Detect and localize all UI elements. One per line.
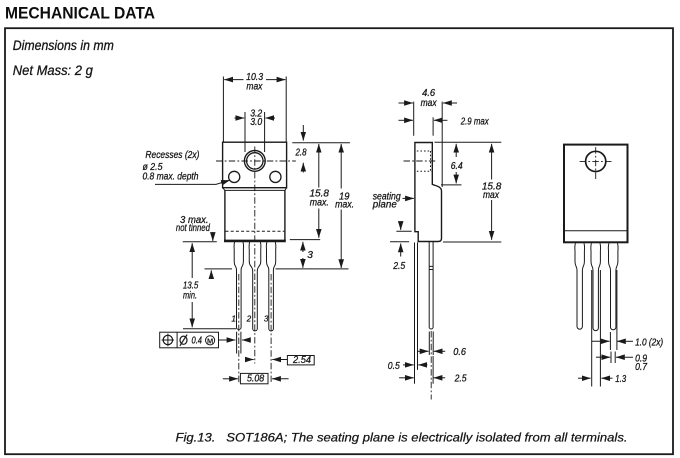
dim 3.2/3.0 extension lines [245,112,265,152]
side lead [429,242,433,329]
svg-text:max.: max. [335,199,354,210]
front vertical centerline [254,147,256,364]
feature control frame [160,332,219,348]
dim 6.4 arrows [455,144,457,157]
rear extension line lead 3 [610,270,617,350]
lead 3 centerline [270,274,272,382]
svg-text:2: 2 [246,315,252,324]
dim 3.2/3.0 arrows [235,117,245,119]
svg-text:2.8: 2.8 [295,147,307,158]
front not-tinned dashed line [226,230,285,232]
rear ext segments 0.9/0.7 [611,352,615,364]
dim 15.8 side line+arrows [491,144,493,180]
side ext segment for 2.5 bottom [432,356,434,384]
dim 0.5 arrows [403,364,414,366]
taper extension line [205,268,349,270]
dim 19 line+arrows [340,144,342,189]
front body upper rect [223,142,287,188]
side seating plane extension lines [415,243,418,384]
side lead crimp ticks [429,266,433,269]
svg-text:2.54: 2.54 [292,355,311,366]
svg-text:min.: min. [183,290,197,301]
svg-text:2.9 max: 2.9 max [460,116,489,127]
front horizontal centerline [216,160,296,162]
front mounting hole [244,151,265,172]
svg-text:3.0: 3.0 [250,117,262,128]
svg-text:1.3: 1.3 [615,374,626,385]
svg-text:0.7: 0.7 [635,362,647,373]
side top ext line [435,141,502,143]
side body outline [415,143,442,242]
rear body rect [564,145,628,243]
lead 1 centerline [238,274,240,382]
M circle symbol [206,336,215,345]
svg-text:3: 3 [307,250,313,261]
svg-text:M: M [207,336,213,345]
dim 10.3 max extension lines [223,77,286,142]
svg-text:not tinned: not tinned [176,223,210,234]
lead 1 front [234,242,244,330]
front body ledge line [223,188,287,191]
dim 13.5 min line+arrows [191,243,193,278]
svg-text:plane: plane [372,199,397,210]
front body lower sides [225,190,285,241]
recesses leader [155,180,230,184]
3max up arrow [210,270,212,278]
frame leader arrows [219,339,236,341]
dim 3 line+arrows [302,242,304,252]
svg-text:max: max [483,190,500,201]
3max down arrow [212,232,214,241]
svg-text:max: max [421,98,438,109]
svg-text:MECHANICAL DATA: MECHANICAL DATA [5,4,155,23]
dim 0.6 arrows [418,350,429,352]
dim 1.3 arrows [578,377,591,379]
rear long extension lines lead 2 [592,270,601,387]
dim 15.8 bottom ext [290,239,320,241]
svg-text:0.6: 0.6 [453,347,466,358]
dim 10.3 max arrows [224,79,243,81]
ext line at body bottom left [183,241,217,243]
rear lead 1 [575,243,585,329]
side lead edge ext segments for 0.6 [429,332,433,356]
side hidden hole dotted [417,151,432,171]
dim 1.0 (2x) arrows [592,340,610,342]
svg-text:0.4: 0.4 [192,336,203,347]
rear lead 2 [591,243,601,330]
tolerance zone lines below lead 1 [237,332,241,354]
svg-text:0.8 max. depth: 0.8 max. depth [143,172,199,183]
svg-text:max.: max. [310,198,329,209]
dim 2.54 arrows [247,359,253,361]
dim 2.9 arrows [399,119,413,121]
rear lead 3 [608,243,618,330]
dim 2.5 left ext lines [390,231,412,242]
dim 2.9 ext line [432,117,434,135]
dim 2.8 lower arrow [302,163,304,173]
dim 4.6 arrows [399,102,413,104]
step ext line [441,184,462,186]
dim 0.9/0.7 arrows [596,356,610,358]
svg-text:Recesses (2x): Recesses (2x) [145,150,199,161]
svg-text:5.08: 5.08 [247,373,264,384]
recess circle right [270,171,281,182]
svg-text:2.5: 2.5 [392,261,405,272]
dim 5.08 arrows [223,378,238,380]
seating plane arrow [403,197,414,199]
svg-text:0.5: 0.5 [388,361,400,372]
position symbol [163,335,172,344]
dim 4.6 ext lines [414,102,443,187]
svg-text:Fig.13. SOT186A; The seating: Fig.13. SOT186A; The seating plane is el… [176,430,628,444]
rear hole [586,151,606,171]
svg-text:1: 1 [231,315,236,324]
dim 2.8 upper arrow [302,125,304,141]
svg-text:Net Mass: 2 g: Net Mass: 2 g [13,62,93,78]
svg-text:1.0 (2x): 1.0 (2x) [635,338,663,349]
rear bottom band line [564,230,628,232]
svg-text:6.4: 6.4 [451,161,463,172]
ext line at lead tips [183,328,236,330]
svg-text:Dimensions in mm: Dimensions in mm [13,37,114,53]
side hole centerline [404,160,436,162]
dim 2.5 bottom arrows [399,377,414,379]
side lead centerline below tip [430,331,432,400]
svg-text:3: 3 [264,315,269,324]
diameter 0.4 text [180,335,187,346]
side bottom ext line [443,241,501,243]
dim 2.5 left arrows [400,222,402,230]
dim 2.54 box [287,356,314,365]
lead 3 front [266,242,276,331]
dim 2.8 ext line [292,142,350,144]
dim 15.8 line+arrows [318,144,320,188]
svg-text:max: max [246,82,263,93]
rear hole crosshair [580,160,613,162]
front body bottom thick edge [224,240,286,243]
svg-text:2.5: 2.5 [454,374,467,385]
lead 2 front [249,242,261,331]
dim 5.08 box [240,373,268,383]
recess circle left [229,171,240,182]
